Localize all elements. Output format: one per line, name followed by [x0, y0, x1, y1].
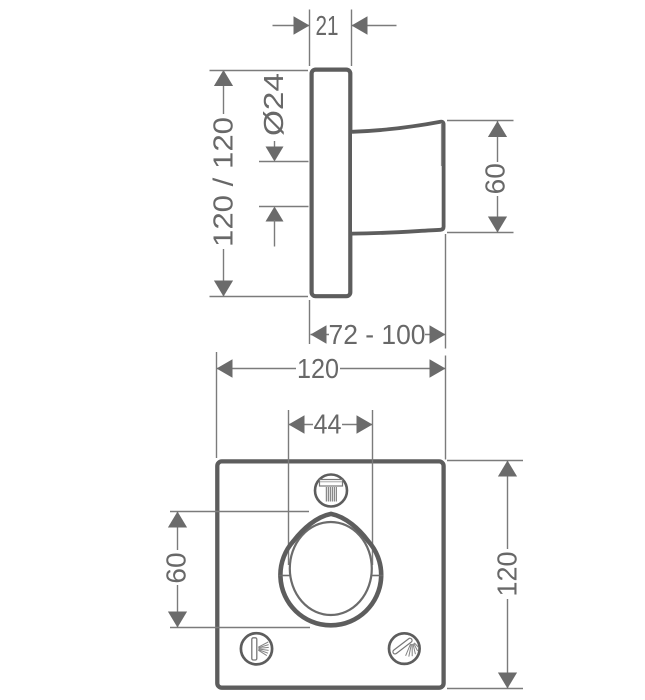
svg-text:21: 21: [316, 10, 339, 41]
arrow 120/120 top: [214, 70, 233, 86]
arrow 60 side bottom: [488, 217, 507, 233]
arrow 120 front right: [430, 359, 446, 378]
Ø24 lower stem: [274, 220, 276, 247]
knob right tick: [372, 575, 384, 577]
knob left tick: [279, 575, 291, 577]
svg-text:60: 60: [480, 163, 511, 194]
arrow 120 right top: [498, 461, 517, 477]
dim line 120/120 vertical: [223, 70, 225, 114]
arrow 60 side top: [488, 121, 507, 137]
arrow 44 right: [357, 415, 373, 434]
extension line 120 right top: [447, 460, 523, 462]
dim line 60 front: [177, 512, 179, 551]
handshower spray: [406, 643, 419, 657]
wall plate side view: [312, 70, 351, 297]
dim line 120 right: [507, 461, 509, 550]
handle face detail line: [441, 124, 443, 166]
arrow 120/120 bottom: [214, 281, 233, 297]
dim line 72-100: [311, 334, 330, 336]
handshower handle: [392, 637, 413, 654]
side jet spray: [258, 642, 269, 656]
knob drop outline (circle arc + pointed top): [280, 541, 381, 625]
svg-text:Ø24: Ø24: [258, 73, 289, 136]
arrow 21 right: [352, 16, 368, 35]
handshower icon circle: [389, 633, 420, 664]
arrow 60 front bottom: [168, 612, 187, 628]
extension line 60 side bottom: [447, 232, 514, 234]
svg-text:120: 120: [297, 353, 339, 384]
dim line 120 front top: [217, 368, 297, 370]
Ø24 upper ref line: [259, 161, 309, 163]
dim line 21 left tail: [273, 25, 310, 27]
overhead shower icon circle: [315, 475, 347, 507]
arrow 120 right bottom: [498, 673, 517, 689]
handle side view outline: [352, 122, 444, 234]
extension line left of dim 21: [309, 10, 311, 67]
dim line 44: [289, 424, 314, 426]
Ø24 lower arrow (up): [266, 207, 284, 222]
dim line 21 right tail: [352, 25, 397, 27]
svg-text:120 / 120: 120 / 120: [208, 117, 239, 247]
overhead shower icon head bar: [320, 480, 343, 487]
arrow 44 left: [289, 415, 305, 434]
extension line 60 side top: [447, 120, 514, 122]
svg-text:120: 120: [492, 552, 523, 597]
arrow 21 left: [294, 16, 310, 35]
svg-text:44: 44: [314, 409, 342, 440]
knob grip egg: [290, 522, 372, 615]
arrow 72-100 right: [430, 325, 446, 344]
Ø24 lower ref line: [259, 206, 309, 208]
escutcheon square front view: [217, 461, 443, 687]
dim line 60 side: [497, 121, 499, 162]
Ø24 upper arrow (down): [266, 147, 284, 162]
projection line right (handle edge to square corner): [445, 234, 447, 349]
extension line 44 left into square: [288, 410, 290, 565]
side jet icon circle: [241, 633, 272, 664]
extension line 120 right bottom: [447, 688, 523, 690]
svg-text:60: 60: [161, 552, 192, 583]
extension line right of dim 21: [351, 10, 353, 67]
extension line 60 front bottom: [170, 627, 310, 629]
extension line 44 right into square: [372, 410, 374, 565]
arrow 120 front left: [217, 359, 233, 378]
overhead shower icon water column: [325, 487, 337, 502]
extension line 120 front left: [216, 352, 218, 458]
Ø24 upper stem: [274, 141, 276, 148]
arrow 72-100 left: [311, 325, 327, 344]
extension line 120/120 bottom: [210, 296, 309, 298]
side jet bar: [252, 638, 257, 660]
arrow 60 front top: [168, 512, 187, 528]
extension line 60 front top: [170, 511, 309, 513]
extension line 120/120 top: [210, 70, 309, 72]
svg-text:72 - 100: 72 - 100: [329, 319, 426, 350]
extension line 72-100 left: [309, 300, 311, 344]
